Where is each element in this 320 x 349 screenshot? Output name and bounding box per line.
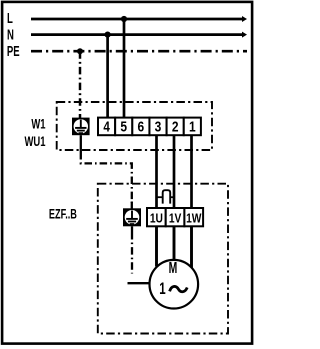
svg-text:3: 3 <box>155 118 162 135</box>
ground wire W1 to EZF <box>81 135 132 208</box>
wire N <box>31 32 247 38</box>
border frame <box>2 2 252 344</box>
terminal 6 <box>132 118 149 136</box>
ground wire EZF to motor <box>128 226 150 283</box>
wire PE to ground terminal <box>79 51 82 118</box>
terminal 1V <box>166 208 185 226</box>
svg-text:EZF..B: EZF..B <box>49 208 77 222</box>
wire L to terminal 5 <box>123 19 126 119</box>
motor M 1~ <box>150 259 199 309</box>
terminal 4 <box>98 118 115 136</box>
ground terminal in EZF <box>123 208 141 226</box>
wire PE <box>31 50 247 53</box>
terminal 3 <box>149 118 166 136</box>
wire L <box>31 16 247 22</box>
svg-text:1V: 1V <box>169 213 182 226</box>
wire terminal 1V to motor <box>173 226 176 260</box>
plug connector on 1U/1V wires <box>156 190 174 203</box>
svg-text:6: 6 <box>138 118 145 135</box>
wire terminal 3 to 1U <box>155 135 158 266</box>
ground terminal in W1 <box>72 118 90 136</box>
wire terminal 1 to 1W <box>190 135 193 268</box>
wire terminal 2 to 1V <box>173 135 176 260</box>
svg-text:1W: 1W <box>186 213 202 226</box>
wire N to terminal 4 <box>106 35 109 119</box>
svg-text:W1: W1 <box>31 117 46 132</box>
svg-text:WU1: WU1 <box>25 134 46 149</box>
junction on PE line <box>77 48 83 54</box>
svg-text:4: 4 <box>103 118 110 135</box>
junction on L line <box>121 16 127 22</box>
svg-text:L: L <box>7 10 13 27</box>
svg-text:M: M <box>169 259 178 277</box>
svg-text:2: 2 <box>172 118 179 135</box>
terminal 2 <box>167 118 184 136</box>
svg-text:1: 1 <box>159 280 165 299</box>
enclosure W1/WU1 <box>57 102 212 150</box>
svg-text:1: 1 <box>189 118 196 135</box>
svg-text:N: N <box>7 26 14 43</box>
wire terminal 1W to motor <box>190 226 193 268</box>
svg-text:5: 5 <box>120 118 127 135</box>
svg-text:PE: PE <box>7 43 20 60</box>
svg-text:1U: 1U <box>150 213 163 226</box>
enclosure EZF..B <box>98 184 228 334</box>
wire terminal 1U to motor (below box) <box>155 226 158 266</box>
junction on N line <box>105 31 111 37</box>
terminal 5 <box>115 118 132 136</box>
terminal 1W <box>184 208 203 226</box>
terminal 1 <box>184 118 201 136</box>
terminal 1U <box>147 208 166 226</box>
